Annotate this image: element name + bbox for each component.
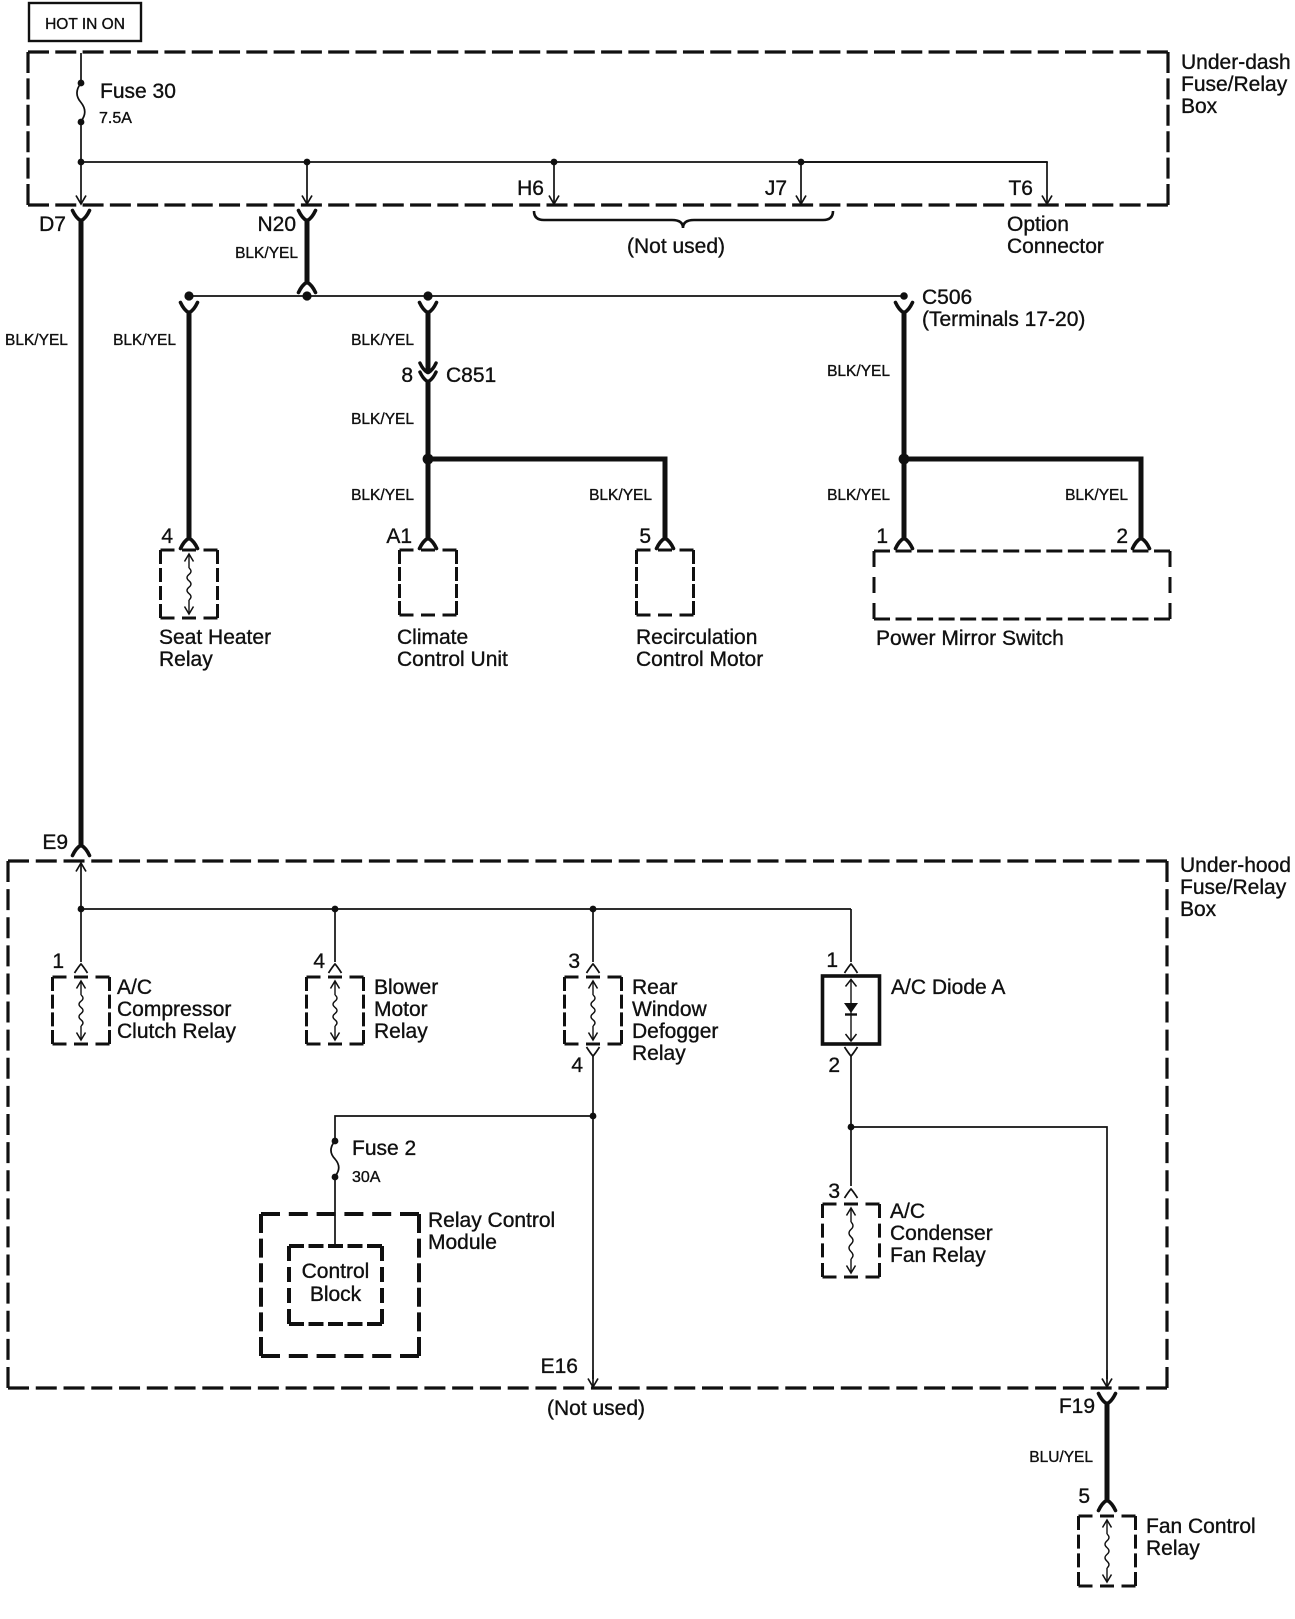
wire diode pin2 down	[850, 1056, 852, 1186]
svg-text:BLK/YEL: BLK/YEL	[351, 411, 414, 428]
svg-text:Option: Option	[1007, 213, 1069, 236]
junction blower tap	[332, 906, 339, 913]
connector climate drop female	[420, 303, 437, 313]
wire C851 to junction	[426, 381, 431, 459]
wire branch to mirror pin 2	[904, 459, 1141, 538]
svg-text:BLK/YEL: BLK/YEL	[113, 332, 176, 349]
svg-text:F19: F19	[1059, 1395, 1095, 1418]
control block box	[289, 1244, 382, 1248]
fan control relay coil	[1103, 1520, 1112, 1528]
svg-text:Under-dash: Under-dash	[1181, 51, 1291, 74]
svg-text:Control Motor: Control Motor	[636, 648, 763, 671]
connector seat drop female	[181, 303, 198, 313]
svg-text:Fuse 2: Fuse 2	[352, 1137, 416, 1160]
svg-text:Climate: Climate	[397, 626, 468, 649]
terminal D7 arrow	[80, 163, 82, 203]
under-hood fuse/relay box outline	[8, 859, 1167, 862]
wire to seat heater relay	[187, 313, 192, 538]
connector F19 female	[1099, 1394, 1116, 1404]
junction compressor tap	[78, 906, 85, 913]
svg-text:2: 2	[1116, 525, 1128, 548]
pin chevron diode pin1	[845, 964, 858, 973]
svg-text:(Not used): (Not used)	[547, 1397, 645, 1420]
wire to blower relay	[334, 909, 336, 962]
junction defogger tap	[590, 906, 597, 913]
svg-text:Blower: Blower	[374, 976, 438, 999]
terminal F19 arrow	[1106, 1370, 1108, 1386]
junction fuse/D7	[78, 159, 85, 166]
power mirror switch box	[874, 550, 1170, 553]
brace not-used H6-J7	[534, 211, 833, 228]
svg-text:2: 2	[828, 1054, 840, 1077]
svg-text:(Terminals 17-20): (Terminals 17-20)	[922, 308, 1085, 331]
pin 2 diode connector	[845, 1047, 858, 1056]
svg-text:Window: Window	[632, 998, 708, 1021]
wire BLK/YEL D7 to E9	[79, 221, 84, 845]
svg-text:C851: C851	[446, 364, 496, 387]
svg-text:Power Mirror Switch: Power Mirror Switch	[876, 627, 1064, 650]
wire defogger pin4 down to E16	[592, 1056, 594, 1379]
condenser relay coil	[847, 1208, 856, 1216]
svg-text:BLK/YEL: BLK/YEL	[351, 487, 414, 504]
svg-text:4: 4	[313, 950, 325, 973]
svg-text:Relay: Relay	[159, 648, 213, 671]
defogger relay coil	[589, 981, 598, 989]
svg-text:3: 3	[568, 950, 580, 973]
svg-text:8: 8	[401, 364, 413, 387]
wire from box top to fuse 30	[80, 53, 82, 83]
terminal T6 arrow	[1046, 162, 1048, 203]
pin 4 defogger connector	[587, 1047, 600, 1056]
svg-text:Module: Module	[428, 1231, 497, 1254]
wire junction to A1	[426, 459, 431, 538]
svg-text:N20: N20	[257, 213, 296, 236]
svg-text:Recirculation: Recirculation	[636, 626, 757, 649]
svg-text:BLK/YEL: BLK/YEL	[1065, 487, 1128, 504]
svg-text:30A: 30A	[352, 1169, 381, 1186]
recirculation control motor box	[637, 549, 694, 552]
svg-text:1: 1	[826, 949, 838, 972]
junction condenser/fan split	[848, 1124, 855, 1131]
svg-text:(Not used): (Not used)	[627, 235, 725, 258]
svg-text:A/C Diode A: A/C Diode A	[891, 976, 1005, 999]
connector C851 male half	[420, 363, 436, 372]
a/c condenser fan relay box	[823, 1203, 880, 1206]
wire to mirror pin 1	[902, 459, 907, 538]
junction H6	[551, 159, 558, 166]
blower motor relay box	[307, 976, 364, 979]
svg-text:BLK/YEL: BLK/YEL	[351, 332, 414, 349]
fuse F30 symbol	[78, 80, 85, 87]
connector D7 female	[73, 211, 90, 221]
climate control unit box	[400, 549, 457, 552]
svg-text:1: 1	[52, 950, 64, 973]
svg-text:A/C: A/C	[117, 976, 152, 999]
wire fuse2 horizontal	[335, 1116, 593, 1141]
connector mirror pin1 male end	[896, 539, 913, 549]
pin chevron condenser relay	[845, 1189, 858, 1198]
junction N20	[304, 159, 311, 166]
wire to C851	[426, 313, 431, 372]
svg-text:Defogger: Defogger	[632, 1020, 718, 1043]
wire fuse2 to control block	[334, 1177, 336, 1247]
svg-text:Control: Control	[302, 1260, 370, 1283]
wire to defogger relay	[592, 909, 594, 962]
svg-text:Block: Block	[310, 1283, 362, 1306]
bus wire inside under-dash box	[81, 161, 1047, 163]
svg-text:Seat Heater: Seat Heater	[159, 626, 271, 649]
junction mirror split	[899, 454, 910, 465]
junction C506 terminal	[900, 292, 908, 300]
pin chevron blower relay	[329, 964, 342, 973]
under-dash fuse/relay box outline	[28, 50, 1168, 53]
junction seat heater tap	[184, 291, 193, 300]
svg-text:5: 5	[639, 525, 651, 548]
svg-text:Box: Box	[1181, 95, 1218, 118]
connector C506 female	[896, 303, 913, 313]
svg-text:Fan Relay: Fan Relay	[890, 1244, 986, 1267]
wire C506 down	[902, 313, 907, 459]
svg-text:Compressor: Compressor	[117, 998, 231, 1021]
svg-text:C506: C506	[922, 286, 972, 309]
connector E9 male end	[73, 846, 90, 856]
svg-text:4: 4	[161, 525, 173, 548]
seat heater relay coil	[185, 554, 194, 562]
svg-text:H6: H6	[517, 177, 544, 200]
junction J7	[798, 159, 805, 166]
connector A1 male end	[420, 539, 437, 549]
svg-text:Under-hood: Under-hood	[1180, 854, 1291, 877]
connector seat heater male end	[181, 539, 198, 549]
svg-text:Connector: Connector	[1007, 235, 1104, 258]
svg-text:BLK/YEL: BLK/YEL	[5, 332, 68, 349]
junction climate tap	[423, 291, 432, 300]
svg-text:A/C: A/C	[890, 1200, 925, 1223]
svg-text:Rear: Rear	[632, 976, 678, 999]
terminal E16 arrow	[592, 1370, 594, 1386]
wire branch to F19	[851, 1127, 1107, 1379]
rear window defogger relay box	[565, 976, 622, 979]
pin chevron defogger relay	[587, 964, 600, 973]
svg-text:1: 1	[876, 525, 888, 548]
terminal E9 arrow into box	[80, 864, 82, 909]
wire J7 to T6	[801, 162, 1047, 163]
svg-text:E9: E9	[42, 831, 68, 854]
svg-text:Relay: Relay	[374, 1020, 428, 1043]
fan control relay box	[1079, 1515, 1136, 1518]
svg-text:BLK/YEL: BLK/YEL	[235, 245, 298, 262]
svg-text:Clutch Relay: Clutch Relay	[117, 1020, 237, 1043]
svg-text:D7: D7	[39, 213, 66, 236]
junction climate/recirc split	[423, 454, 434, 465]
svg-text:Relay: Relay	[632, 1042, 686, 1065]
svg-text:BLK/YEL: BLK/YEL	[589, 487, 652, 504]
svg-text:Box: Box	[1180, 898, 1217, 921]
junction N20 on mid bus	[302, 291, 311, 300]
svg-text:BLK/YEL: BLK/YEL	[827, 487, 890, 504]
svg-text:Relay: Relay	[1146, 1537, 1200, 1560]
wire fuse 30 to bus	[80, 122, 82, 162]
svg-text:E16: E16	[541, 1355, 578, 1378]
connector N20 male end	[299, 283, 316, 293]
svg-text:BLK/YEL: BLK/YEL	[827, 363, 890, 380]
fuse F2 symbol	[332, 1138, 339, 1145]
svg-text:HOT IN ON: HOT IN ON	[45, 16, 125, 33]
mid distribution bus wire	[189, 295, 904, 297]
svg-text:Relay Control: Relay Control	[428, 1209, 555, 1232]
svg-text:3: 3	[828, 1180, 840, 1203]
wire branch to recirculation motor	[428, 459, 665, 538]
wire N20 down	[305, 221, 310, 282]
svg-text:7.5A: 7.5A	[99, 110, 132, 127]
svg-text:A1: A1	[386, 525, 412, 548]
svg-text:Condenser: Condenser	[890, 1222, 993, 1245]
compressor relay coil	[77, 981, 86, 989]
relay control module box	[261, 1212, 419, 1216]
svg-text:Fan Control: Fan Control	[1146, 1515, 1256, 1538]
connector recirc male end	[657, 539, 674, 549]
svg-text:Fuse/Relay: Fuse/Relay	[1181, 73, 1288, 96]
seat heater relay box	[161, 549, 218, 552]
terminal J7 arrow	[800, 163, 802, 203]
a/c compressor clutch relay box	[53, 976, 110, 979]
svg-text:Fuse/Relay: Fuse/Relay	[1180, 876, 1287, 899]
svg-text:Motor: Motor	[374, 998, 428, 1021]
diode D1 symbol	[850, 979, 852, 1040]
svg-text:4: 4	[571, 1054, 583, 1077]
wire BLU/YEL to fan control relay	[1105, 1404, 1110, 1500]
terminal H6 arrow	[553, 163, 555, 203]
svg-text:Control Unit: Control Unit	[397, 648, 508, 671]
connector mirror pin2 male end	[1133, 539, 1150, 549]
svg-text:BLU/YEL: BLU/YEL	[1029, 1449, 1093, 1466]
svg-text:5: 5	[1078, 1485, 1090, 1508]
connector N20 female	[299, 211, 316, 221]
connector C851 female half	[420, 372, 436, 381]
svg-text:Fuse 30: Fuse 30	[100, 80, 176, 103]
wire to compressor relay	[80, 909, 82, 962]
connector fan relay male end	[1099, 1501, 1116, 1511]
svg-text:T6: T6	[1008, 177, 1033, 200]
terminal N20 arrow	[306, 163, 308, 203]
pin chevron compressor relay	[75, 964, 88, 973]
svg-text:J7: J7	[765, 177, 787, 200]
junction fuse2 tap	[590, 1113, 597, 1120]
a/c diode A box	[823, 976, 880, 1044]
wire bus to diode	[850, 909, 852, 962]
power tag HOT IN ON box	[29, 3, 141, 41]
blower relay coil	[331, 981, 340, 989]
under-hood bus wire	[81, 908, 851, 910]
